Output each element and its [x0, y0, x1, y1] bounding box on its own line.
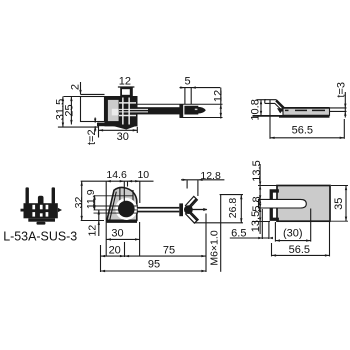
svg-text:2: 2 [69, 84, 81, 90]
dimension 32 line [81, 181, 83, 220]
svg-text:14.6: 14.6 [106, 169, 127, 181]
dimension (30) line [275, 240, 310, 242]
dimension t=2 arrows [94, 118, 96, 123]
svg-text:32: 32 [73, 197, 85, 209]
keeper bend top [265, 100, 285, 109]
pivot circle [118, 201, 135, 218]
svg-text:56.5: 56.5 [289, 244, 310, 256]
dimension 14.6 10 line [81, 180, 154, 182]
wing flange [179, 203, 183, 216]
flange [179, 104, 183, 117]
svg-text:5: 5 [185, 76, 191, 88]
grey insert E-shape [108, 100, 120, 122]
svg-text:12: 12 [86, 225, 98, 237]
svg-text:30: 30 [117, 131, 129, 143]
rubber lip line [81, 93, 105, 95]
svg-text:25: 25 [64, 104, 76, 116]
hidden dashes [285, 109, 325, 111]
bottom plate [97, 123, 136, 127]
slot [259, 199, 307, 208]
svg-text:95: 95 [148, 259, 160, 271]
rod [138, 107, 180, 114]
svg-text:13.5: 13.5 [251, 160, 263, 181]
white ring [117, 199, 136, 218]
body inner diagonal [110, 192, 117, 221]
VIEW 3 : product pictogram [21, 187, 63, 224]
tab notch [122, 89, 130, 95]
latch dark block [105, 97, 138, 127]
dimension 12 left line [98, 210, 100, 236]
svg-text:t=2: t=2 [86, 129, 98, 145]
insert notch [112, 109, 119, 116]
svg-text:10: 10 [137, 169, 149, 181]
dimension 12.8 line [181, 179, 224, 181]
svg-text:20: 20 [109, 245, 121, 257]
knurl white lines [119, 98, 136, 125]
dimension 10.8 line [260, 100, 262, 116]
svg-text:75: 75 [163, 245, 175, 257]
hook tip [184, 106, 205, 115]
dimension 25 line [70, 97, 72, 125]
dimension 11.9 line [94, 195, 96, 210]
svg-text:6.5: 6.5 [231, 228, 246, 240]
svg-text:(30): (30) [283, 228, 303, 240]
dimension 26.8 line [240, 195, 242, 223]
svg-text:26.8: 26.8 [227, 198, 239, 219]
dimension 13.5/5.8/13.5 line [259, 164, 261, 234]
rod front [137, 207, 180, 209]
dimension 12 top line [118, 86, 134, 88]
svg-text:10.8: 10.8 [249, 99, 261, 120]
right tail lines [330, 107, 347, 109]
dimension 2 extension [80, 82, 82, 94]
dimension 31.5 line [62, 97, 64, 128]
keeper plate top view [277, 186, 330, 222]
keeper bend dark face [276, 101, 284, 109]
top tab [120, 87, 133, 96]
svg-text:13.5: 13.5 [250, 211, 262, 232]
dimension 95 line [101, 270, 207, 272]
wing upper [186, 196, 198, 209]
latch body top line [64, 96, 138, 98]
dimension 35 line [345, 186, 347, 222]
lip top bracket [270, 189, 279, 199]
svg-text:5.8: 5.8 [251, 196, 263, 211]
rubber holder box [81, 97, 105, 122]
dimension 30 line view1 [99, 129, 138, 131]
svg-text:M6×1.0: M6×1.0 [209, 230, 221, 265]
rod tip line [193, 209, 207, 211]
dimension 12 right line [220, 88, 222, 119]
keeper bend bottom [265, 103, 283, 111]
dimension 6.5 line [230, 237, 269, 239]
svg-text:12: 12 [213, 90, 225, 102]
latch front body [107, 187, 137, 220]
svg-text:12.8: 12.8 [200, 170, 221, 182]
svg-text:t=3: t=3 [335, 82, 347, 98]
bottom chamfer triangle [113, 126, 136, 130]
dimension 30 line view4 [106, 238, 139, 240]
rod white lines [119, 108, 148, 110]
dimension 56.5 line view2 [270, 137, 344, 139]
keeper plate bottom thick edge [279, 115, 330, 117]
pictogram white slots [32, 205, 48, 217]
dimension 5 line [180, 87, 221, 89]
body bottom thick [107, 220, 137, 223]
svg-text:56.5: 56.5 [292, 124, 313, 136]
svg-text:30: 30 [111, 227, 123, 239]
svg-text:35: 35 [333, 198, 345, 210]
lip bottom bracket [270, 208, 279, 221]
svg-text:12: 12 [119, 76, 131, 88]
dimension t=3 line [344, 92, 346, 118]
wing nut center [184, 205, 193, 214]
dimension 20 75 line [101, 255, 207, 257]
svg-text:11.9: 11.9 [85, 189, 97, 209]
wing lower [186, 210, 199, 223]
svg-text:L-53A-SUS-3: L-53A-SUS-3 [3, 229, 77, 244]
keeper plate side [283, 108, 330, 115]
dimension 56.5 line view5 [272, 254, 330, 256]
tab edge lines front view [119, 188, 121, 217]
